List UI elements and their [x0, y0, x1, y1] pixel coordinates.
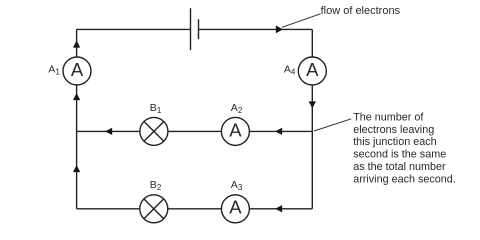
svg-text:A4: A4 [284, 64, 296, 77]
svg-text:The number of: The number of [353, 111, 424, 123]
svg-text:A: A [229, 197, 242, 218]
svg-text:B1: B1 [150, 102, 162, 115]
svg-text:A2: A2 [231, 102, 243, 115]
svg-text:second is the same: second is the same [353, 149, 446, 161]
svg-text:B2: B2 [150, 179, 162, 192]
svg-text:flow of electrons: flow of electrons [321, 5, 401, 17]
svg-text:A: A [229, 119, 242, 140]
svg-text:A1: A1 [48, 64, 60, 77]
svg-text:this junction each: this junction each [353, 136, 436, 148]
svg-text:A3: A3 [231, 179, 243, 192]
svg-text:as the total number: as the total number [353, 161, 446, 173]
svg-text:electrons leaving: electrons leaving [353, 124, 434, 136]
svg-text:arriving each second.: arriving each second. [353, 173, 456, 185]
svg-text:A: A [71, 59, 84, 80]
svg-text:A: A [306, 59, 319, 80]
